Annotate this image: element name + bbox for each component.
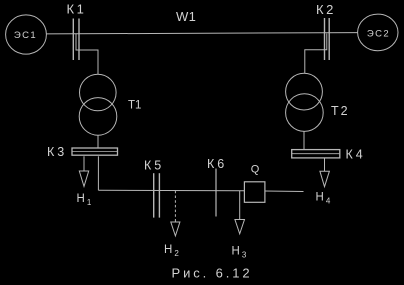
svg-text:К1: К1 (67, 2, 87, 17)
svg-text:Рис. 6.12: Рис. 6.12 (172, 266, 253, 281)
svg-text:К5: К5 (144, 159, 164, 173)
svg-text:К3: К3 (47, 145, 67, 159)
svg-text:ЭС2: ЭС2 (367, 28, 390, 39)
svg-text:ЭС1: ЭС1 (14, 30, 37, 41)
svg-text:К2: К2 (316, 2, 336, 17)
svg-text:Т2: Т2 (331, 104, 350, 118)
svg-text:Т1: Т1 (128, 100, 141, 112)
svg-text:W1: W1 (176, 9, 196, 24)
svg-text:Q: Q (251, 164, 260, 176)
svg-text:К6: К6 (207, 157, 227, 171)
svg-text:К4: К4 (346, 148, 366, 162)
